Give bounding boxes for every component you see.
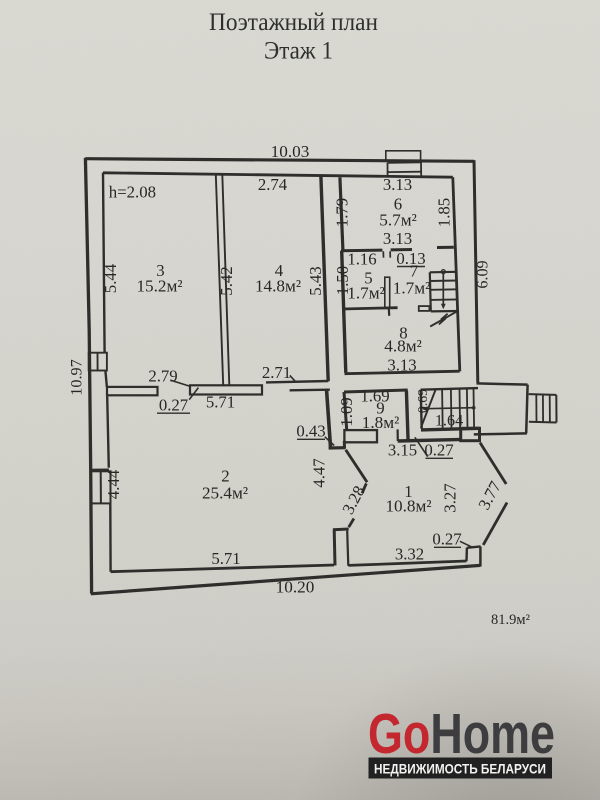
wall room4 bottom (266, 381, 328, 382)
wall bottom-right step horizontal (467, 546, 481, 547)
porch threshold box (461, 428, 480, 440)
wall room9 top (344, 390, 408, 392)
wall outer right (474, 160, 478, 382)
svg-text:1.79: 1.79 (333, 198, 352, 227)
wall bar left of hall (107, 387, 158, 395)
svg-text:6.09: 6.09 (474, 260, 492, 288)
wall porch jog top (477, 383, 528, 384)
wall inner left seg1 (103, 173, 105, 353)
wall step right vertical (347, 531, 348, 566)
svg-text:5.71: 5.71 (211, 549, 240, 568)
wall under room6 seg1 (341, 249, 382, 253)
svg-text:3.13: 3.13 (383, 175, 412, 194)
svg-text:81.9м²: 81.9м² (491, 612, 531, 628)
svg-text:10.97: 10.97 (68, 359, 86, 395)
wall inner left seg3 (107, 396, 109, 467)
underline 0.27 left (157, 412, 190, 414)
wall diagonal B stub2 (349, 519, 354, 528)
leader 2.79 (171, 380, 190, 386)
logo black bar (369, 758, 553, 779)
leader 0.27 left (189, 388, 198, 400)
wall room8 bottom (345, 371, 460, 374)
svg-text:5.44: 5.44 (101, 263, 120, 293)
svg-text:Этаж 1: Этаж 1 (264, 36, 333, 65)
svg-text:2.71: 2.71 (262, 363, 291, 382)
window left upper frame (89, 353, 107, 371)
svg-text:10.8м²: 10.8м² (385, 497, 431, 516)
staircase upper (419, 270, 459, 327)
wall room9 right (406, 391, 408, 441)
svg-text:НЕДВИЖИМОСТЬ БЕЛАРУСИ: НЕДВИЖИМОСТЬ БЕЛАРУСИ (374, 760, 546, 776)
wall chamfer lower (483, 503, 507, 545)
svg-text:5.71: 5.71 (206, 393, 235, 412)
wall diagonal A (346, 450, 367, 482)
window top bump (386, 151, 421, 161)
wall inner top (103, 173, 453, 177)
svg-text:1.7м²: 1.7м² (393, 279, 431, 298)
wall room4 right (321, 176, 328, 381)
leader 0.27 bottom-right (460, 541, 473, 547)
wall room6 left (340, 177, 343, 249)
svg-text:0.27: 0.27 (159, 396, 188, 415)
door tick b (389, 251, 391, 257)
wall divider top (290, 389, 330, 392)
door tick a (382, 251, 384, 257)
svg-text:2.74: 2.74 (258, 175, 288, 194)
svg-text:3.32: 3.32 (395, 545, 424, 564)
svg-text:5.7м²: 5.7м² (379, 211, 417, 230)
wall porch bottom (474, 433, 527, 434)
wall room5 bottom (342, 308, 397, 309)
window top frame (388, 162, 422, 176)
wall room9 left (344, 392, 347, 430)
leader 0.43 (325, 437, 334, 446)
svg-text:1.16: 1.16 (347, 250, 376, 269)
wall under room6 seg3 (437, 246, 454, 249)
wall diagonal B stub1 (362, 483, 366, 493)
wall inner left seg2 (105, 371, 107, 388)
partition tail (388, 308, 391, 316)
wall divider foot right (343, 441, 346, 448)
wall outer left (85, 158, 91, 594)
partition 3-4 left line (216, 174, 223, 385)
svg-text:3.77: 3.77 (474, 478, 505, 513)
wall outer top (85, 159, 474, 162)
svg-text:0.27: 0.27 (432, 530, 461, 549)
svg-text:3.13: 3.13 (387, 356, 416, 375)
wall inner left seg4 (109, 504, 112, 572)
window left lower frame (89, 470, 110, 504)
underline 0.27 mid (426, 457, 454, 459)
wall chamfer upper (480, 443, 506, 484)
wall bar middle of hall (190, 385, 262, 394)
svg-text:1.8м²: 1.8м² (362, 413, 400, 432)
svg-text:3.15: 3.15 (388, 441, 417, 460)
wall divider vertical (327, 391, 331, 447)
wall rooms5-8 left (342, 251, 346, 373)
svg-text:0.43: 0.43 (296, 422, 325, 441)
svg-text:4.44: 4.44 (104, 469, 123, 499)
wall inner bottom right part (348, 561, 466, 565)
staircase lower (421, 388, 478, 429)
wall hall bottom (398, 439, 462, 441)
partition 3-4 right line (222, 174, 229, 385)
svg-text:5.43: 5.43 (306, 266, 325, 295)
svg-text:3.27: 3.27 (441, 483, 460, 512)
svg-text:25.4м²: 25.4м² (202, 484, 248, 503)
wall inner bottom left part (111, 565, 334, 572)
underline 0.13 (397, 266, 425, 268)
svg-text:1.64: 1.64 (435, 412, 463, 430)
svg-text:1.7м²: 1.7м² (347, 284, 385, 303)
svg-text:10.20: 10.20 (276, 578, 315, 597)
wall below lower stairs (421, 428, 480, 430)
wall inner right (453, 177, 460, 371)
svg-text:1.69: 1.69 (360, 387, 389, 406)
svg-text:0.69: 0.69 (415, 389, 430, 413)
svg-text:1.85: 1.85 (435, 198, 454, 227)
svg-text:4.8м²: 4.8м² (384, 337, 422, 356)
leader 2.71 (290, 375, 297, 382)
svg-text:14.8м²: 14.8м² (255, 277, 301, 296)
wall step bottom-left horizontal (333, 528, 349, 532)
underline 0.43 (297, 438, 325, 440)
wall room9 jamb stub (397, 429, 399, 441)
partition room5-7 (385, 277, 390, 307)
svg-text:4.47: 4.47 (310, 458, 329, 487)
svg-text:h=2.08: h=2.08 (109, 183, 156, 202)
wall porch right (526, 385, 527, 434)
svg-text:10.03: 10.03 (271, 142, 310, 161)
wall room9 bottom bar (344, 430, 377, 442)
underline 0.27 bottom-right (434, 546, 461, 548)
svg-text:1.09: 1.09 (337, 397, 356, 426)
wall under room6 seg2 (391, 248, 412, 251)
wall divider foot bottom (329, 446, 346, 449)
wall step left vertical (333, 530, 337, 566)
svg-text:5.42: 5.42 (217, 266, 236, 295)
leader 3.15-0.27 (415, 437, 428, 456)
wall outer bottom-right end up (479, 547, 482, 567)
wall outer bottom (91, 565, 481, 593)
svg-text:0.27: 0.27 (424, 441, 453, 460)
svg-text:Поэтажный план: Поэтажный план (209, 7, 378, 36)
svg-text:2.79: 2.79 (148, 367, 177, 386)
svg-text:15.2м²: 15.2м² (136, 277, 182, 296)
svg-text:3.13: 3.13 (383, 229, 412, 248)
svg-text:GoHome: GoHome (368, 702, 555, 766)
entrance steps (529, 394, 557, 422)
wall bottom-right step vertical (465, 548, 468, 562)
